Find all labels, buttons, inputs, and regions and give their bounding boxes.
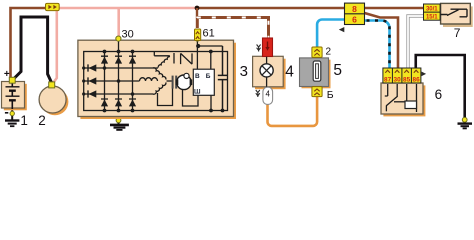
svg-text:86: 86 [413,76,421,83]
svg-text:2: 2 [326,47,332,58]
svg-text:2: 2 [38,113,46,128]
svg-text:Б: Б [206,73,211,80]
svg-text:Ш: Ш [194,89,201,96]
svg-text:4: 4 [265,90,270,99]
svg-text:30: 30 [394,76,402,83]
svg-text:5: 5 [333,62,342,79]
svg-text:8: 8 [352,4,357,14]
svg-text:15/1: 15/1 [426,15,438,21]
svg-text:30: 30 [122,29,134,41]
svg-text:3: 3 [240,63,248,80]
svg-text:87: 87 [384,76,392,83]
svg-text:30/1: 30/1 [426,7,438,13]
svg-text:В: В [195,73,200,80]
svg-text:Б: Б [327,89,334,101]
svg-text:85: 85 [403,76,411,83]
svg-text:6: 6 [352,15,357,25]
svg-text:7: 7 [454,26,461,40]
svg-text:4: 4 [285,63,294,80]
svg-text:1: 1 [20,113,28,128]
svg-text:6: 6 [435,87,443,102]
svg-text:61: 61 [203,27,215,39]
